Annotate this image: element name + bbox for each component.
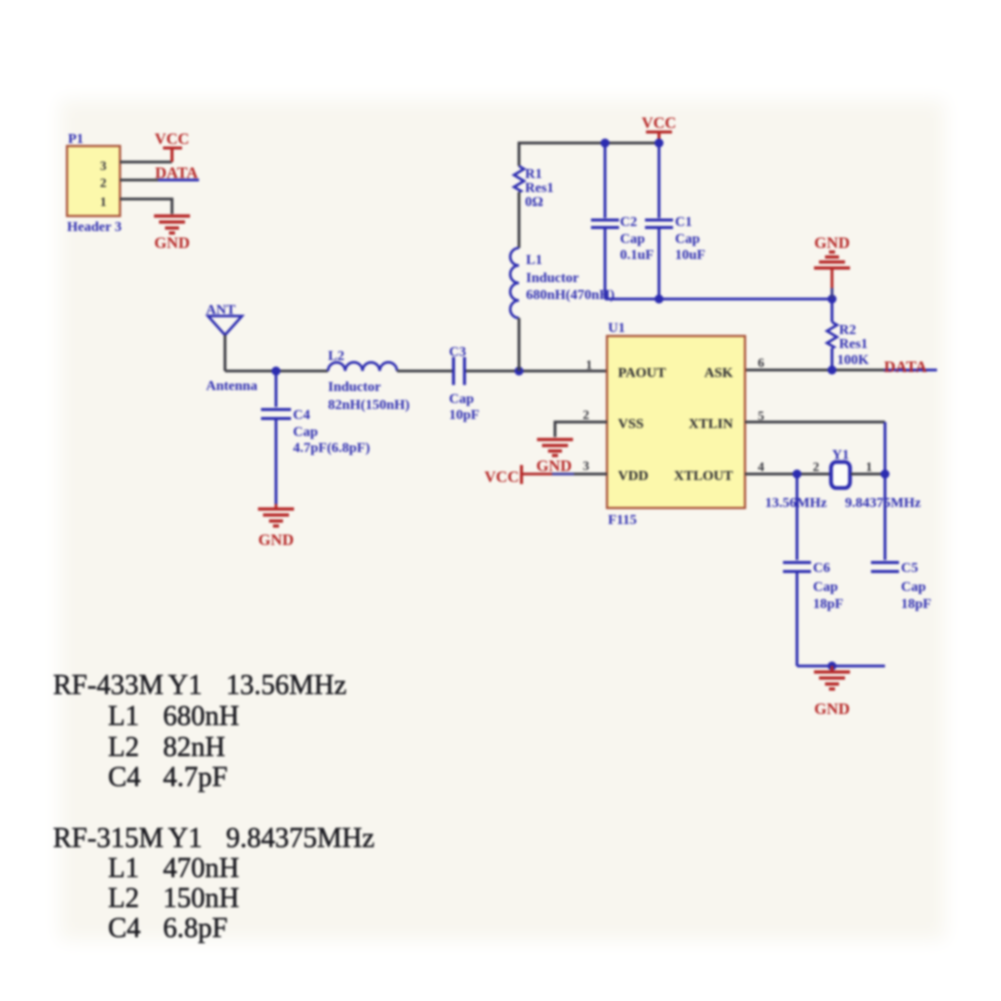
label C5 18pF — [901, 597, 931, 612]
ground GND (VSS) — [536, 440, 573, 476]
ground GND (R2 rail) — [814, 235, 850, 299]
antenna ANT — [208, 316, 242, 371]
svg-text:9.84375MHz: 9.84375MHz — [226, 823, 375, 854]
wire P1 pin2 (DATA) — [120, 179, 199, 182]
svg-text:C4: C4 — [108, 762, 141, 793]
wire VSS pin2 to ground — [555, 422, 607, 437]
svg-text:Cap: Cap — [675, 232, 700, 247]
svg-text:Cap: Cap — [620, 232, 645, 247]
U1 pin name ASK — [704, 366, 733, 381]
note table line L1 470nH — [108, 853, 239, 884]
power port VCC (P1) — [155, 131, 190, 162]
svg-text:4.7pF: 4.7pF — [163, 762, 228, 793]
U1 pin number 5 — [758, 408, 765, 423]
wire L1 to PAOUT node — [518, 318, 521, 371]
label U1 — [608, 321, 625, 336]
U1 pin name XTLIN — [689, 417, 733, 432]
wire C4 to ground — [275, 420, 278, 508]
junction node R2 bottom — [828, 366, 837, 375]
inductor L2 — [328, 362, 397, 371]
capacitor C2 — [591, 220, 619, 228]
note table line L2 150nH — [108, 883, 239, 914]
svg-text:4.7pF(6.8pF): 4.7pF(6.8pF) — [293, 441, 370, 456]
wire crystal to C5 node — [851, 473, 885, 476]
svg-text:150nH: 150nH — [163, 883, 239, 914]
label Header 3 — [67, 220, 122, 235]
resistor R2 — [827, 322, 837, 348]
label C3 10pF — [449, 408, 479, 423]
label L1 680nH(470nH) — [526, 288, 615, 303]
svg-text:C4: C4 — [293, 408, 310, 423]
junction node C1 bottom — [655, 295, 664, 304]
svg-text:6.8pF: 6.8pF — [163, 913, 228, 944]
label L2 82nH(150nH) — [328, 398, 410, 413]
wire ASK to DATA — [745, 369, 937, 372]
svg-text:U1: U1 — [608, 321, 625, 336]
wire top rail R1 to VCC — [519, 143, 659, 166]
svg-text:R2: R2 — [839, 323, 856, 338]
P1 pin number 2 — [100, 175, 107, 190]
label C4 — [293, 408, 310, 423]
svg-text:GND: GND — [814, 235, 850, 252]
svg-text:C3: C3 — [449, 345, 466, 360]
wire antenna to L2 — [225, 370, 328, 373]
svg-text:82nH(150nH): 82nH(150nH) — [328, 398, 410, 413]
svg-text:VCC: VCC — [642, 115, 677, 132]
wire P1 pin3 to VCC — [120, 161, 172, 164]
svg-text:Res1: Res1 — [839, 337, 868, 352]
wire XTLIN pin5 — [745, 422, 885, 474]
svg-text:Inductor: Inductor — [526, 271, 579, 286]
svg-text:Y1: Y1 — [168, 670, 202, 701]
label C1 Cap — [675, 232, 700, 247]
svg-text:4: 4 — [758, 459, 765, 474]
P1 pin number 1 — [100, 194, 107, 209]
label R1 0ohm — [525, 195, 543, 210]
wire bottom rail C2 to R2 — [605, 298, 832, 301]
svg-text:R1: R1 — [525, 167, 542, 182]
ground GND (P1) — [154, 216, 190, 252]
svg-text:L2: L2 — [108, 883, 139, 914]
junction node C5 top — [881, 470, 890, 479]
svg-text:RF-315M: RF-315M — [53, 823, 164, 854]
label L1 — [526, 253, 542, 268]
svg-text:10uF: 10uF — [675, 248, 705, 263]
label C2 0.1uF — [620, 248, 654, 263]
svg-text:0.1uF: 0.1uF — [620, 248, 654, 263]
label Y1 — [832, 448, 849, 463]
svg-text:L2: L2 — [328, 349, 344, 364]
svg-text:C2: C2 — [620, 215, 637, 230]
label Antenna — [206, 379, 257, 394]
U1 pin name XTLOUT — [674, 469, 734, 484]
label L2 Inductor — [328, 380, 381, 395]
svg-text:Cap: Cap — [449, 392, 474, 407]
svg-text:L1: L1 — [526, 253, 542, 268]
svg-text:GND: GND — [154, 235, 190, 252]
label DATA (net) — [884, 359, 927, 376]
U1 pin number 1 — [586, 357, 593, 372]
svg-text:Inductor: Inductor — [328, 380, 381, 395]
svg-text:C1: C1 — [675, 215, 692, 230]
Y1 pin number 2 — [813, 459, 820, 474]
note table line C4 4.7pF — [108, 762, 228, 793]
label C5 Cap — [901, 580, 926, 595]
svg-text:DATA: DATA — [155, 165, 198, 182]
label R2 Res1 — [839, 337, 868, 352]
svg-text:XTLIN: XTLIN — [689, 417, 733, 432]
svg-text:P1: P1 — [68, 132, 84, 147]
U1 pin number 4 — [758, 459, 765, 474]
svg-text:Res1: Res1 — [525, 181, 554, 196]
label L2 — [328, 349, 344, 364]
svg-text:GND: GND — [814, 701, 850, 718]
wire C4 branch — [275, 371, 278, 407]
svg-text:Y1: Y1 — [832, 448, 849, 463]
note table line RF-433M — [53, 670, 347, 701]
svg-text:1: 1 — [866, 459, 873, 474]
svg-text:18pF: 18pF — [901, 597, 931, 612]
label C3 Cap — [449, 392, 474, 407]
svg-text:82nH: 82nH — [163, 732, 225, 763]
svg-text:L2: L2 — [108, 732, 139, 763]
note table line L2 82nH — [108, 732, 225, 763]
svg-text:470nH: 470nH — [163, 853, 239, 884]
inductor L1 — [510, 248, 519, 318]
label 13.56MHz — [765, 496, 827, 511]
svg-text:Header 3: Header 3 — [67, 220, 122, 235]
svg-text:GND: GND — [536, 458, 572, 475]
capacitor C1 — [645, 220, 673, 228]
svg-text:DATA: DATA — [884, 359, 927, 376]
U1 pin number 3 — [583, 458, 590, 473]
P1 pin number 3 — [100, 158, 107, 173]
svg-text:F115: F115 — [608, 513, 637, 528]
wire C2 bottom stem — [604, 229, 607, 299]
label C2 — [620, 215, 637, 230]
svg-text:C5: C5 — [901, 561, 918, 576]
svg-text:VCC: VCC — [155, 131, 190, 148]
svg-text:VCC: VCC — [484, 469, 519, 486]
label ANT — [206, 303, 236, 318]
label 9.84375MHz — [845, 496, 921, 511]
svg-text:1: 1 — [100, 194, 107, 209]
wire C1 top stem — [658, 143, 661, 218]
Y1 pin number 1 — [866, 459, 873, 474]
junction node C1 top — [655, 139, 664, 148]
wire P1 pin1 to ground — [120, 199, 172, 214]
label C6 18pF — [813, 597, 843, 612]
svg-text:Cap: Cap — [293, 425, 318, 440]
wire XTLOUT pin4 to crystal — [745, 473, 830, 476]
ground GND (crystal) — [814, 666, 850, 718]
wire R2 top stem — [831, 299, 834, 322]
U1 pin name VSS — [618, 417, 644, 432]
label R2 — [839, 323, 856, 338]
svg-text:1: 1 — [586, 357, 593, 372]
svg-text:VSS: VSS — [618, 417, 644, 432]
wire bottom crystal rail — [797, 665, 885, 668]
svg-text:2: 2 — [100, 175, 107, 190]
connector P1 body — [67, 146, 120, 216]
svg-text:6: 6 — [758, 355, 765, 370]
junction node L1 tap — [515, 367, 524, 376]
svg-text:PAOUT: PAOUT — [618, 366, 667, 381]
label C5 — [901, 561, 918, 576]
svg-text:RF-433M: RF-433M — [53, 670, 164, 701]
wire VDD pin3 to VCC — [522, 473, 607, 476]
junction node C2 top — [601, 139, 610, 148]
power port VCC (VDD) — [484, 465, 521, 486]
svg-text:GND: GND — [258, 532, 294, 549]
svg-text:3: 3 — [100, 158, 107, 173]
svg-text:680nH: 680nH — [163, 701, 239, 732]
svg-text:2: 2 — [813, 459, 820, 474]
wire R1 to L1 — [518, 192, 521, 248]
note table line RF-315M — [53, 823, 375, 854]
svg-text:Cap: Cap — [813, 580, 838, 595]
label C1 — [675, 215, 692, 230]
wire C6 bottom stem — [796, 573, 799, 666]
label C4 4.7pF(6.8pF) — [293, 441, 370, 456]
svg-text:Cap: Cap — [901, 580, 926, 595]
note table line C4 6.8pF — [108, 913, 228, 944]
ground GND (C4) — [258, 509, 294, 549]
wire C6 top stem — [796, 474, 799, 560]
svg-text:9.84375MHz: 9.84375MHz — [845, 496, 921, 511]
label C2 Cap — [620, 232, 645, 247]
svg-text:C6: C6 — [813, 561, 830, 576]
junction node C4 tap — [272, 367, 281, 376]
junction node R2 top — [828, 295, 837, 304]
wire L2 to C3 — [397, 370, 452, 373]
svg-text:L1: L1 — [108, 853, 139, 884]
capacitor C3 — [454, 357, 465, 385]
svg-text:Antenna: Antenna — [206, 379, 257, 394]
label R1 Res1 — [525, 181, 554, 196]
capacitor C5 — [871, 563, 899, 572]
label C1 10uF — [675, 248, 705, 263]
capacitor C4 — [261, 410, 291, 419]
svg-text:ASK: ASK — [704, 366, 733, 381]
svg-text:13.56MHz: 13.56MHz — [226, 670, 347, 701]
svg-text:C4: C4 — [108, 913, 141, 944]
label L1 Inductor — [526, 271, 579, 286]
svg-text:XTLOUT: XTLOUT — [674, 469, 734, 484]
junction node bottom ground tap — [828, 662, 837, 671]
svg-text:3: 3 — [583, 458, 590, 473]
label C6 — [813, 561, 830, 576]
label C4 Cap — [293, 425, 318, 440]
wire R2 bottom stem — [831, 348, 834, 370]
U1 pin name VDD — [618, 469, 648, 484]
svg-text:Y1: Y1 — [168, 823, 202, 854]
label R2 100K — [837, 353, 869, 368]
label P1 — [68, 132, 84, 147]
svg-text:100K: 100K — [837, 353, 869, 368]
label C3 — [449, 345, 466, 360]
power port VCC (top) — [642, 115, 677, 143]
wire C5 top stem — [884, 474, 887, 560]
svg-text:L1: L1 — [108, 701, 139, 732]
wire C2 top stem — [604, 143, 607, 218]
svg-text:0Ω: 0Ω — [525, 195, 543, 210]
svg-text:2: 2 — [583, 407, 590, 422]
svg-text:VDD: VDD — [618, 469, 648, 484]
U1 pin name PAOUT — [618, 366, 667, 381]
label DATA (P1) — [155, 165, 198, 182]
junction node C6 top — [793, 470, 802, 479]
note table line L1 680nH — [108, 701, 239, 732]
svg-text:10pF: 10pF — [449, 408, 479, 423]
wire C1 bottom stem — [658, 229, 661, 299]
capacitor C6 — [783, 563, 811, 572]
svg-text:ANT: ANT — [206, 303, 236, 318]
resistor R1 — [514, 166, 524, 192]
IC U1 body — [607, 336, 745, 508]
label C6 Cap — [813, 580, 838, 595]
crystal Y1 — [831, 462, 850, 488]
U1 pin number 2 — [583, 407, 590, 422]
svg-text:680nH(470nH): 680nH(470nH) — [526, 288, 615, 303]
U1 pin number 6 — [758, 355, 765, 370]
label F115 — [608, 513, 637, 528]
svg-text:18pF: 18pF — [813, 597, 843, 612]
wire C3 to U1 pin1 — [466, 370, 607, 373]
label R1 — [525, 167, 542, 182]
